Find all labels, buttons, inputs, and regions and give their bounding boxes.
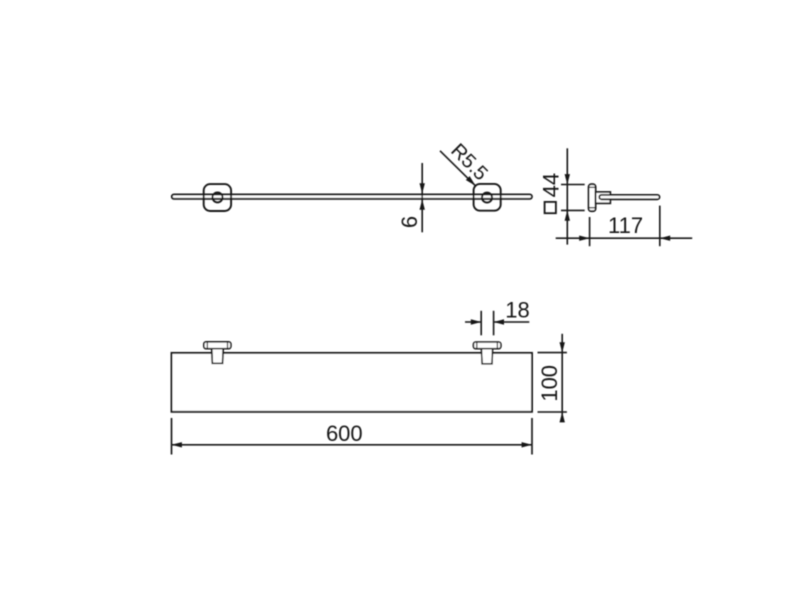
svg-text:117: 117 [608, 213, 643, 238]
svg-text:6: 6 [397, 216, 422, 228]
svg-text:600: 600 [326, 421, 363, 446]
svg-text:44: 44 [539, 173, 564, 197]
svg-text:100: 100 [537, 365, 562, 402]
svg-text:18: 18 [505, 298, 529, 323]
